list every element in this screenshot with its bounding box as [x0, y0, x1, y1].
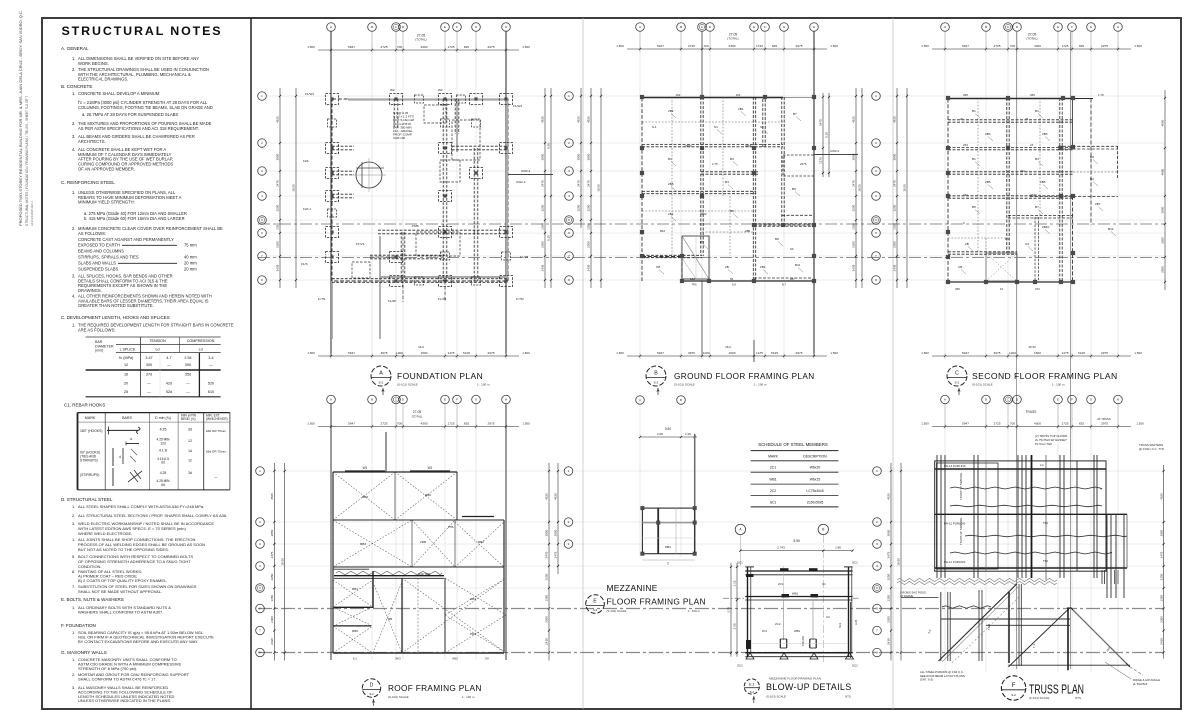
second floor column markers [946, 96, 1075, 284]
svg-text:5.50: 5.50 [665, 427, 671, 431]
svg-text:2B1: 2B1 [738, 107, 744, 111]
ground floor plan title [646, 366, 815, 395]
svg-text:T62: T62 [1043, 559, 1048, 563]
svg-text:F1/W3: F1/W3 [513, 104, 522, 108]
svg-text:4800: 4800 [1161, 168, 1165, 175]
svg-text:2B3: 2B3 [1042, 132, 1048, 136]
svg-text:4525: 4525 [554, 493, 558, 500]
svg-text:B. CONCRETE: B. CONCRETE [61, 84, 92, 89]
svg-text:2B1: 2B1 [668, 109, 674, 113]
svg-text:520: 520 [208, 382, 214, 386]
svg-text:B: B [680, 398, 682, 402]
svg-text:B1: B1 [1035, 109, 1039, 113]
svg-text:TENSION: TENSION [149, 339, 166, 343]
svg-text:4525: 4525 [1159, 493, 1163, 500]
dim chains right of ground plan [852, 88, 863, 288]
dimension chains right of shared bubbles [577, 88, 602, 288]
svg-text:4300: 4300 [1034, 421, 1041, 425]
svg-text:6d: 6d [161, 461, 165, 465]
svg-text:FL/2B: FL/2B [520, 255, 528, 259]
svg-text:6.: 6. [72, 569, 75, 574]
svg-text:2.75: 2.75 [712, 162, 718, 166]
svg-text:≥6d OR 75mm: ≥6d OR 75mm [206, 429, 227, 433]
svg-text:BY CONTACT EXCAVATIONS BEFORE: BY CONTACT EXCAVATIONS BEFORE AND EXECUT… [78, 639, 198, 644]
svg-text:1.500: 1.500 [830, 44, 838, 48]
svg-text:2C2: 2C2 [775, 622, 781, 626]
svg-text:12: 12 [188, 439, 192, 443]
svg-text:18.55: 18.55 [597, 184, 601, 192]
truss plan right bottom note [1105, 662, 1160, 686]
svg-text:10: 10 [1000, 287, 1004, 291]
svg-text:2725: 2725 [688, 44, 695, 48]
svg-text:2725: 2725 [381, 45, 388, 49]
svg-text:1.500: 1.500 [616, 44, 624, 48]
svg-text:—: — [147, 390, 151, 394]
blow-up labels [737, 561, 858, 668]
svg-text:RB: RB [388, 617, 392, 621]
svg-text:C1. REBAR HOOKS: C1. REBAR HOOKS [64, 403, 105, 408]
svg-text:2475: 2475 [276, 180, 280, 187]
svg-text:1725: 1725 [756, 44, 763, 48]
left margin vertical stamp text [18, 10, 34, 226]
svg-text:Ld: Ld [199, 348, 203, 352]
svg-text:1.80: 1.80 [835, 546, 841, 550]
svg-text:PROPOSED TWO-STOREY RESIDENTIA: PROPOSED TWO-STOREY RESIDENTIAL BUILDING… [18, 10, 23, 226]
svg-text:1.500: 1.500 [522, 422, 530, 426]
svg-text:H: H [1117, 25, 1119, 29]
svg-text:2C1: 2C1 [778, 582, 784, 586]
bottom half shared bubbles right of roof [554, 463, 573, 574]
blow-up left dimension chain [727, 563, 738, 657]
svg-text:CHB 100: CHB 100 [393, 136, 406, 140]
svg-text:ARCHITECTS.: ARCHITECTS. [78, 139, 106, 144]
foundation plan title [371, 366, 490, 395]
svg-text:1.500: 1.500 [921, 422, 929, 426]
svg-text:1.500: 1.500 [307, 351, 315, 355]
svg-text:3650: 3650 [685, 144, 692, 148]
second floor top grid bubbles and dimension line [921, 23, 1142, 52]
svg-text:2B1: 2B1 [668, 212, 674, 216]
blow-up mid beam label [792, 592, 799, 596]
svg-text:NTS: NTS [845, 695, 851, 699]
svg-text:2.54: 2.54 [184, 356, 191, 360]
svg-text:W2: W2 [390, 88, 395, 92]
svg-text:1.: 1. [72, 56, 75, 61]
foundation plan outline dashed [332, 99, 508, 281]
svg-text:6d: 6d [161, 483, 165, 487]
svg-text:(WHICHEVER): (WHICHEVER) [206, 417, 228, 421]
cistern circle [352, 158, 386, 192]
svg-text:1350: 1350 [1159, 595, 1163, 602]
svg-text:2250: 2250 [893, 204, 897, 211]
svg-text:C. REINFORCING STEEL: C. REINFORCING STEEL [61, 180, 115, 185]
svg-text:B7: B7 [793, 112, 797, 116]
foundation bottom dimension line [307, 345, 530, 359]
svg-text:B5: B5 [972, 205, 976, 209]
svg-text:2475: 2475 [1159, 551, 1163, 558]
truss plan purlin verticals [937, 455, 1124, 598]
svg-text:2725: 2725 [994, 421, 1001, 425]
svg-text:20 mm: 20 mm [184, 261, 197, 266]
svg-text:3670: 3670 [1030, 193, 1037, 197]
svg-text:E: E [1057, 25, 1059, 29]
svg-text:CB: CB [958, 265, 962, 269]
svg-text:372: 372 [1035, 287, 1040, 291]
svg-text:1.500: 1.500 [921, 44, 929, 48]
svg-text:F5/B: F5/B [412, 224, 419, 228]
second floor grid bubbles between ground and second [872, 92, 881, 285]
svg-text:5125: 5125 [463, 351, 470, 355]
truss plan labels upper [944, 463, 1048, 564]
svg-text:4.1 B: 4.1 B [159, 449, 168, 453]
svg-text:1.15: 1.15 [733, 580, 737, 586]
svg-text:2850: 2850 [541, 153, 545, 160]
svg-text:(S-102) SCALE: (S-102) SCALE [388, 695, 409, 699]
svg-text:1.500: 1.500 [1136, 422, 1144, 426]
svg-text:2438: 2438 [541, 264, 545, 271]
svg-text:C: C [955, 371, 959, 377]
svg-text:1: 1 [667, 562, 669, 566]
svg-text:E: E [1057, 398, 1059, 402]
svg-text:a. 20.7MPa AT 28 DAYS FOR SUS: a. 20.7MPa AT 28 DAYS FOR SUSPENDED SLAB… [82, 112, 178, 117]
svg-text:SLABS AND WALLS: SLABS AND WALLS [78, 261, 116, 266]
roof plan extreme axis dark verticals [331, 404, 506, 660]
notes section C reinforcing steel [61, 180, 223, 308]
svg-text:F2/L: F2/L [303, 159, 309, 163]
svg-text:AS FOLLOWS:: AS FOLLOWS: [78, 231, 106, 236]
svg-text:F./7N: F./7N [318, 297, 325, 301]
svg-text:2B: 2B [965, 242, 969, 246]
svg-text:2850: 2850 [270, 529, 274, 536]
svg-text:2975: 2975 [796, 351, 803, 355]
svg-text:A: A [944, 25, 946, 29]
svg-text:362: 362 [963, 193, 968, 197]
svg-text:1725: 1725 [448, 421, 455, 425]
svg-text:1725: 1725 [448, 45, 455, 49]
svg-text:657: 657 [790, 277, 795, 281]
svg-text:W6x15: W6x15 [810, 477, 821, 481]
svg-text:(TOTAL): (TOTAL) [1026, 37, 1037, 41]
svg-text:2850: 2850 [893, 153, 897, 160]
svg-text:B8: B8 [775, 237, 779, 241]
svg-text:C2: C2 [826, 615, 830, 619]
svg-text:CW2.2: CW2.2 [521, 169, 531, 173]
svg-text:GREATER THAN NOTED SUBSTITUTE.: GREATER THAN NOTED SUBSTITUTE. [78, 303, 154, 308]
svg-text:16.32: 16.32 [1028, 345, 1036, 349]
svg-text:BARS: BARS [122, 416, 132, 420]
svg-text:365: 365 [955, 287, 960, 291]
rebar hooks table [78, 413, 230, 490]
svg-text:T62: T62 [1043, 521, 1048, 525]
blow-up middle columns [748, 566, 848, 648]
svg-text:150x150: 150x150 [801, 635, 805, 646]
svg-text:1.: 1. [72, 537, 75, 542]
svg-text:2300: 2300 [1159, 616, 1163, 623]
svg-text:MEZZANINE FLOOR FRAMING PLAN: MEZZANINE FLOOR FRAMING PLAN [769, 677, 821, 681]
svg-text:MB1: MB1 [665, 545, 671, 549]
blow-up detail frame [745, 567, 852, 657]
svg-text:8.25: 8.25 [547, 235, 551, 241]
svg-text:5947: 5947 [348, 351, 355, 355]
svg-text:S4: S4 [790, 247, 794, 251]
foundation plan left grid bubbles [258, 92, 267, 285]
ground floor beam labels [656, 107, 803, 274]
roof plan right dimension chains [545, 463, 550, 661]
svg-text:2.743: 2.743 [777, 546, 785, 550]
svg-text:27.05: 27.05 [413, 410, 422, 414]
notes section E bolts [61, 597, 171, 615]
svg-text:2250: 2250 [887, 573, 891, 580]
svg-text:1350: 1350 [276, 223, 280, 230]
truss plan upper block outline [935, 461, 1127, 571]
truss plan left grid bubbles [873, 467, 882, 657]
svg-text:D. STRUCTURAL STEEL: D. STRUCTURAL STEEL [61, 497, 113, 502]
svg-text:2250: 2250 [587, 204, 591, 211]
svg-text:F: F [456, 25, 458, 29]
svg-text:2475: 2475 [541, 180, 545, 187]
svg-text:SC1: SC1 [770, 500, 777, 504]
svg-text:65: 65 [730, 277, 734, 281]
svg-text:2.: 2. [72, 513, 75, 518]
shared grid bubbles between foundation and ground plans [565, 92, 574, 285]
svg-text:(TOTAL): (TOTAL) [415, 38, 426, 42]
svg-text:1.500: 1.500 [307, 422, 315, 426]
svg-text:B1: B1 [668, 157, 672, 161]
svg-text:1.500: 1.500 [921, 351, 929, 355]
svg-text:A: A [944, 398, 946, 402]
svg-text:D: D [370, 683, 374, 689]
ground floor extreme axis dark verticals [702, 32, 814, 357]
roof plan left grid bubbles [256, 467, 265, 657]
svg-text:2300: 2300 [541, 241, 545, 248]
svg-text:AS PER ASTM SPECIFICATIONS AND: AS PER ASTM SPECIFICATIONS AND ACI 318 R… [78, 126, 199, 131]
svg-text:5947: 5947 [962, 44, 969, 48]
svg-text:4.: 4. [72, 147, 75, 152]
svg-text:4.7: 4.7 [166, 356, 171, 360]
svg-text:2300: 2300 [893, 241, 897, 248]
svg-text:—: — [186, 382, 190, 386]
svg-text:4850: 4850 [1161, 119, 1165, 126]
foundation right small arrow line [508, 169, 553, 175]
svg-text:4300: 4300 [1034, 44, 1041, 48]
svg-text:1d: 1d [188, 449, 192, 453]
svg-text:8.7: 8.7 [782, 283, 786, 287]
svg-text:12: 12 [124, 363, 128, 367]
svg-text:2475: 2475 [800, 162, 807, 166]
svg-text:610: 610 [208, 390, 214, 394]
svg-text:5.20: 5.20 [825, 132, 829, 138]
svg-text:P56: P56 [448, 525, 454, 529]
ground floor column markers [640, 95, 816, 283]
svg-text:LC: LC [1040, 463, 1044, 467]
svg-text:2C2: 2C2 [770, 489, 776, 493]
svg-text:1 : 100 m: 1 : 100 m [477, 383, 490, 387]
svg-text:B1: B1 [972, 109, 976, 113]
svg-text:A: A [639, 398, 641, 402]
svg-text:PR2: PR2 [470, 632, 476, 636]
svg-text:2850: 2850 [587, 153, 591, 160]
svg-text:2.: 2. [72, 121, 75, 126]
svg-text:18.55: 18.55 [858, 184, 862, 192]
svg-text:B3: B3 [1035, 157, 1039, 161]
mezzanine right wall line [694, 434, 696, 554]
svg-text:1350: 1350 [545, 595, 549, 602]
svg-text:2850: 2850 [577, 153, 581, 160]
svg-text:5947: 5947 [962, 351, 969, 355]
svg-text:SC1: SC1 [852, 561, 858, 565]
foundation plan left dimension chains [276, 88, 297, 288]
svg-text:1200: 1200 [1009, 351, 1016, 355]
svg-text:700: 700 [397, 45, 402, 49]
notes section F foundation [61, 623, 214, 644]
svg-text:1475: 1475 [448, 351, 455, 355]
svg-text:2.: 2. [72, 67, 75, 72]
svg-text:40 mm: 40 mm [184, 255, 197, 260]
svg-text:3975: 3975 [994, 351, 1001, 355]
svg-text:(S-101) SCALE: (S-101) SCALE [972, 383, 993, 387]
svg-text:BUT NOT AS NOTED TO THE OPPOSI: BUT NOT AS NOTED TO THE OPPOSING SIDES. [78, 547, 169, 552]
foundation footing labels [301, 88, 528, 303]
second floor bottom dimension line [921, 345, 1142, 359]
second floor left dimension chains [893, 88, 908, 288]
svg-text:2475: 2475 [577, 180, 581, 187]
svg-text:700: 700 [1010, 421, 1015, 425]
svg-text:S-2: S-2 [654, 381, 659, 385]
second floor stairs [986, 253, 1017, 281]
svg-text:RB2: RB2 [478, 540, 484, 544]
ground floor bottom dimension line [616, 340, 838, 362]
svg-text:4525: 4525 [276, 116, 280, 123]
svg-text:3300: 3300 [1161, 237, 1165, 244]
svg-text:2975: 2975 [796, 44, 803, 48]
svg-text:2850: 2850 [1159, 529, 1163, 536]
truss plan purlin squiggle [942, 606, 991, 608]
svg-text:2300: 2300 [887, 616, 891, 623]
rebar hooks heading [64, 403, 105, 408]
svg-text:SHALL CONFORM TO ASTM C476 f'c: SHALL CONFORM TO ASTM C476 f'c = 17. [78, 677, 157, 682]
ground floor right small dimension chains [814, 93, 858, 177]
blow-up beam stiffener plates [746, 568, 818, 649]
svg-text:26: 26 [1025, 117, 1029, 121]
svg-text:1 : 100 m: 1 : 100 m [754, 383, 767, 387]
notes section G masonry walls [61, 650, 190, 703]
svg-text:2975: 2975 [488, 45, 495, 49]
svg-text:PH-11 PURLINS: PH-11 PURLINS [944, 560, 965, 564]
foundation isolated footing pads [326, 94, 513, 287]
svg-text:5125: 5125 [771, 351, 778, 355]
svg-text:1.: 1. [72, 323, 75, 328]
foundation gray wall overlay [332, 99, 508, 339]
svg-text:3650: 3650 [745, 144, 752, 148]
svg-text:E: E [753, 25, 755, 29]
svg-text:B9: B9 [1090, 177, 1094, 181]
foundation plan top grid bubbles and dimension line [307, 23, 530, 53]
svg-text:18.55: 18.55 [897, 558, 901, 566]
svg-text:75 mm: 75 mm [184, 243, 197, 248]
svg-text:2975: 2975 [1101, 421, 1108, 425]
truss plan sag rod note [900, 591, 926, 599]
ground floor extra bay labels [652, 93, 807, 281]
truss plan right note text [1139, 443, 1165, 451]
svg-text:18.55: 18.55 [292, 184, 296, 192]
svg-text:25: 25 [124, 390, 128, 394]
roof plan outline [333, 472, 504, 653]
svg-text:2300: 2300 [276, 241, 280, 248]
svg-text:B11: B11 [795, 263, 801, 267]
svg-text:H: H [813, 25, 815, 29]
svg-text:B10: B10 [660, 229, 666, 233]
svg-text:1725: 1725 [1062, 421, 1069, 425]
svg-text:ARE AS FOLLOWS:: ARE AS FOLLOWS: [78, 327, 116, 332]
svg-text:NTS: NTS [1075, 696, 1081, 700]
svg-text:2725: 2725 [994, 44, 1001, 48]
svg-text:1275: 1275 [819, 157, 823, 164]
svg-text:2300: 2300 [545, 616, 549, 623]
svg-text:3.: 3. [72, 685, 75, 690]
svg-text:RB6: RB6 [352, 629, 358, 633]
svg-text:5.: 5. [72, 554, 75, 559]
svg-text:CONCRETE CAST AGAINST AND PERM: CONCRETE CAST AGAINST AND PERMANENTLY [78, 237, 174, 242]
svg-text:A: A [330, 25, 332, 29]
svg-text:2438: 2438 [276, 264, 280, 271]
svg-text:B: B [371, 398, 373, 402]
truss plan break line zigzag [897, 578, 1057, 584]
svg-text:F: F [1012, 683, 1016, 689]
svg-text:2850: 2850 [276, 153, 280, 160]
svg-text:f'c (MPa): f'c (MPa) [119, 356, 134, 360]
second floor interior beams dashed [948, 98, 1073, 282]
schedule of steel members table [751, 442, 839, 507]
svg-text:TB-1: TB-1 [987, 623, 991, 630]
svg-text:2250: 2250 [541, 204, 545, 211]
svg-text:FL/2P: FL/2P [388, 299, 396, 303]
svg-text:2L 65x65x6: 2L 65x65x6 [1133, 682, 1148, 686]
svg-text:MEZZANINE: MEZZANINE [607, 583, 658, 593]
svg-text:(TOTAL): (TOTAL) [727, 37, 738, 41]
svg-text:TRUSS "A" SPACING: TRUSS "A" SPACING [959, 518, 963, 545]
svg-text:2B5: 2B5 [1040, 180, 1046, 184]
svg-text:(S-102) SCALE: (S-102) SCALE [607, 609, 627, 613]
svg-text:6.1: 6.1 [353, 657, 358, 661]
wall centerline row lower [258, 609, 1163, 653]
foundation extreme axis dark verticals [331, 32, 506, 357]
svg-text:SHALL NOT BE MADE WITHOUT APPR: SHALL NOT BE MADE WITHOUT APPROVAL. [78, 589, 162, 594]
svg-text:2B: 2B [725, 265, 729, 269]
svg-text:12: 12 [188, 459, 192, 463]
svg-text:4525: 4525 [541, 116, 545, 123]
svg-text:2438: 2438 [887, 638, 891, 645]
truss plan top note text [1035, 434, 1067, 446]
svg-text:2.: 2. [72, 672, 75, 677]
roof plan left dimension chains [270, 463, 286, 661]
svg-text:1.70: 1.70 [1098, 93, 1104, 97]
svg-text:1.: 1. [72, 630, 75, 635]
svg-text:DESCRIPTION: DESCRIPTION [803, 455, 827, 459]
svg-text:LC75x40x5: LC75x40x5 [806, 489, 823, 493]
light grid lattice bottom half [266, 404, 1165, 672]
light grid lattice top half [266, 32, 1165, 356]
svg-text:ALL STRUCTURAL STEEL SECTIONS: ALL STRUCTURAL STEEL SECTIONS / PROP. SH… [78, 513, 227, 518]
svg-text:1.500: 1.500 [616, 351, 624, 355]
svg-text:F: F [764, 25, 766, 29]
mezzanine top dimension [639, 427, 697, 438]
svg-text:263: 263 [963, 143, 968, 147]
svg-text:18.55: 18.55 [903, 184, 907, 192]
svg-text:—: — [167, 363, 171, 367]
svg-text:2RB: 2RB [420, 540, 426, 544]
svg-text:1350: 1350 [587, 223, 591, 230]
svg-text:5947: 5947 [962, 421, 969, 425]
